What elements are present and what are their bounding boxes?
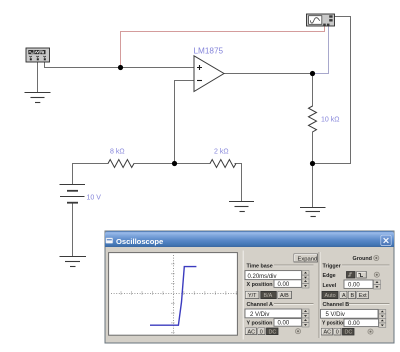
svg-text:2 V/Div: 2 V/Div bbox=[250, 312, 269, 318]
ground (below battery) bbox=[60, 257, 87, 267]
wire: divider rail 8k to 2k bbox=[134, 163, 210, 165]
oscilloscope icon XSC1 bbox=[307, 14, 335, 26]
resistor R2 2 kOhm (horizontal) bbox=[210, 160, 236, 168]
junction dot: output node bbox=[310, 71, 315, 76]
wire: function generator + output to op-amp non-inverting input bbox=[45, 62, 195, 68]
svg-text:DC: DC bbox=[345, 330, 353, 336]
title icon bbox=[106, 238, 113, 244]
svg-text:Time base: Time base bbox=[247, 264, 273, 270]
svg-text:10 kΩ: 10 kΩ bbox=[321, 117, 339, 124]
junction dot: input node bbox=[118, 65, 123, 70]
svg-text:Trigger: Trigger bbox=[323, 264, 342, 270]
svg-text:0: 0 bbox=[336, 330, 339, 336]
svg-text:Expand: Expand bbox=[298, 256, 318, 262]
svg-text:0.20ms/div: 0.20ms/div bbox=[248, 274, 277, 280]
junction dot: divider node bbox=[172, 161, 177, 166]
wire: 10k bottom to ground bbox=[312, 132, 314, 208]
ground (below 10k resistor) bbox=[300, 208, 326, 217]
svg-text:AC: AC bbox=[324, 330, 332, 336]
wire: blue probe wire from oscilloscope channel B to output node bbox=[313, 26, 329, 74]
svg-text:Y position: Y position bbox=[247, 321, 273, 327]
svg-text:10 V: 10 V bbox=[87, 195, 102, 202]
svg-text:X position: X position bbox=[247, 282, 273, 288]
graticule horizontal axis bbox=[111, 255, 237, 334]
svg-text:LM1875: LM1875 bbox=[194, 47, 224, 56]
svg-text:Y position: Y position bbox=[322, 321, 346, 327]
svg-text:5 V/Div: 5 V/Div bbox=[326, 312, 345, 318]
svg-text:Oscilloscope: Oscilloscope bbox=[116, 237, 163, 246]
wire: battery top to 8k resistor bbox=[73, 164, 109, 185]
svg-text:A: A bbox=[342, 293, 346, 299]
display bezel bbox=[109, 253, 238, 336]
svg-text:Level: Level bbox=[323, 283, 337, 289]
svg-text:0.00: 0.00 bbox=[348, 283, 360, 289]
resistor R1 8 kOhm (horizontal) bbox=[108, 160, 134, 168]
op-amp U1 LM1875 bbox=[194, 56, 224, 92]
window frame bbox=[105, 231, 394, 343]
Y/T B/A A/B buttons bbox=[246, 291, 260, 299]
timebase field bbox=[245, 271, 302, 280]
controls panel bbox=[243, 251, 320, 340]
ground (below 2k resistor) bbox=[229, 202, 254, 212]
junction dot: 10k bottom node bbox=[310, 161, 315, 166]
svg-text:2 kΩ: 2 kΩ bbox=[214, 149, 229, 156]
wire: red probe wire from oscilloscope channel A to input node bbox=[121, 26, 325, 68]
svg-text:Auto: Auto bbox=[325, 293, 336, 299]
svg-text:0.00: 0.00 bbox=[348, 321, 360, 327]
svg-text:DC: DC bbox=[269, 329, 277, 335]
ground (below function generator) bbox=[25, 93, 51, 103]
svg-text:Edge: Edge bbox=[323, 273, 336, 279]
svg-text:0.00: 0.00 bbox=[278, 321, 290, 327]
Expand button bbox=[294, 254, 318, 262]
svg-text:A/B: A/B bbox=[280, 293, 289, 299]
wire: output node down to 10k resistor bbox=[312, 74, 314, 107]
svg-text:0: 0 bbox=[260, 329, 263, 335]
wire: function generator COM to ground bbox=[37, 62, 39, 93]
close button bbox=[381, 235, 391, 245]
svg-text:0.00: 0.00 bbox=[278, 282, 290, 288]
svg-text:B/A: B/A bbox=[264, 293, 273, 299]
AC 0 DC bbox=[246, 328, 257, 335]
wire: battery bottom to ground bbox=[72, 203, 74, 257]
svg-text:B: B bbox=[351, 293, 355, 299]
Auto A B Ext bbox=[322, 291, 338, 299]
svg-text:8 kΩ: 8 kΩ bbox=[110, 149, 125, 156]
wire: 2k right to ground bbox=[235, 164, 242, 202]
function generator XFG1 bbox=[26, 48, 50, 62]
AC 0 DC bbox=[322, 328, 333, 335]
svg-text:Channel B: Channel B bbox=[323, 302, 350, 308]
battery V1 bbox=[60, 185, 86, 203]
wire: op-amp inverting input feedback down to divider node bbox=[175, 81, 195, 164]
wire: oscilloscope ground terminal to 10k bottom node bbox=[313, 17, 351, 164]
channel A trace bbox=[150, 267, 196, 326]
svg-text:Ext: Ext bbox=[359, 293, 367, 299]
svg-text:Channel A: Channel A bbox=[247, 302, 274, 308]
svg-text:Ground: Ground bbox=[353, 256, 372, 262]
wire: op-amp output bbox=[224, 73, 313, 75]
resistor R3 10 kOhm (vertical) bbox=[309, 106, 317, 132]
svg-text:AC: AC bbox=[248, 329, 256, 335]
svg-text:Y/T: Y/T bbox=[248, 293, 257, 299]
